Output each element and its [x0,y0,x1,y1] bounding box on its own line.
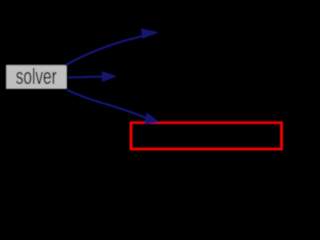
wire edge2 (solver to middle-right node) [69,76,104,79]
wire edge3 (solver to red node) [67,90,146,118]
node solver (grey box) [6,65,66,88]
arrowhead edge3 [144,113,159,124]
arrowhead edge1 [141,29,158,39]
wire edge1 (solver to top-right node) [66,36,143,65]
svg-text:solver: solver [16,65,57,89]
red node box [131,123,282,149]
arrowhead edge2 [102,71,117,82]
